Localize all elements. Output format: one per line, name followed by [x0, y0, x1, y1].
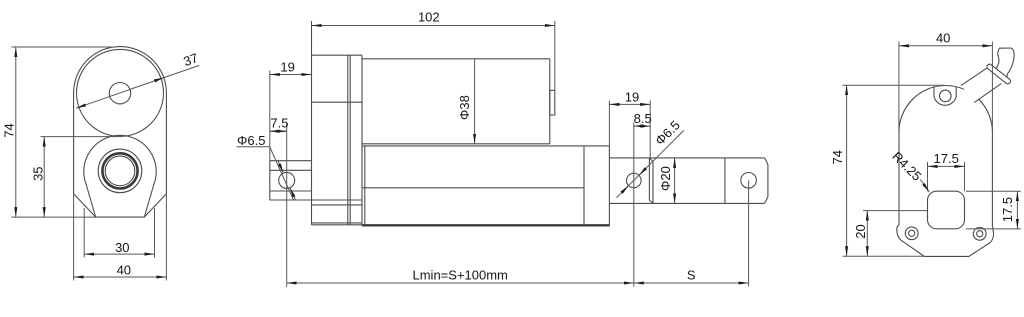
middle view rod top [609, 157, 764, 159]
middle view front clevis end chamfers [765, 158, 768, 165]
svg-text:102: 102 [418, 10, 440, 25]
svg-text:Lmin=S+100mm: Lmin=S+100mm [413, 267, 508, 282]
middle view tube top [362, 145, 609, 147]
svg-text:17.5: 17.5 [934, 151, 959, 166]
right view body sides [898, 132, 900, 225]
svg-text:7.5: 7.5 [270, 116, 288, 131]
svg-text:30: 30 [115, 240, 129, 255]
dim 19 front: dimension line [609, 103, 650, 105]
dim 102: extension line right [554, 21, 556, 90]
svg-text:74: 74 [830, 150, 845, 164]
dim S: extension line right [748, 180, 750, 286]
left view body outline [74, 47, 167, 218]
svg-text:19: 19 [625, 90, 639, 105]
dim 30 left: extension lines [83, 208, 85, 258]
dim 17.5 right: extension lines [966, 190, 1021, 192]
dim Lmin: dimension line [287, 282, 634, 284]
right view cable ring collar [986, 63, 1012, 85]
middle view gearbox lower lines [312, 204, 363, 206]
svg-text:Φ38: Φ38 [457, 95, 472, 120]
left view bushing thick ring [102, 153, 137, 188]
right view flange hole right [973, 227, 986, 240]
svg-text:S: S [687, 267, 696, 282]
dim 37 diagonal dimension line [76, 78, 164, 109]
svg-text:35: 35 [30, 166, 45, 180]
dim 102: dimension line [312, 25, 555, 27]
middle view tube left edge [364, 146, 366, 225]
dim S: dimension line [634, 282, 749, 284]
dim 74 right view: dimension line [846, 85, 848, 256]
middle view rod hole [627, 173, 642, 188]
dim 17.5 top: extension lines [927, 162, 929, 191]
dim 35 left: extension line [41, 136, 119, 138]
right view flange hole left [905, 227, 918, 240]
middle view motor brush cap [550, 90, 555, 115]
middle view rear clevis [270, 160, 312, 162]
left view bushing inner circle [105, 156, 135, 186]
dim 20 right view: extension line [863, 210, 928, 212]
middle view tube bottom thick [362, 224, 609, 226]
dim 74 right view: extension lines [843, 84, 945, 86]
dim 19 rear: extension line [269, 71, 271, 161]
middle view rod bottom [609, 202, 764, 204]
dim 19 front: extension lines [608, 101, 610, 146]
dim 17.5 right: dimension line [1016, 191, 1018, 229]
dim 40 left: extension lines [73, 195, 75, 281]
middle view gearbox inner flange pair [347, 55, 349, 225]
middle view front clevis separation [724, 158, 726, 204]
svg-text:74: 74 [1, 123, 16, 137]
right view cable stub sides [961, 67, 988, 85]
left view clevis boss arc [84, 135, 156, 217]
left view bushing outer circle [98, 149, 142, 193]
middle view rear clevis hole [279, 172, 295, 188]
svg-text:Φ20: Φ20 [658, 166, 673, 191]
middle view tube end face [608, 146, 610, 226]
dim 30 left: dimension line [84, 253, 154, 255]
middle view gearbox outline [312, 54, 363, 56]
dim 7.5 / Lmin: long center extension line [286, 123, 288, 287]
svg-text:20: 20 [853, 224, 868, 238]
right view dome arc [899, 85, 992, 132]
middle view tube mid line [362, 187, 584, 189]
dim phi20: dimension line [674, 158, 676, 204]
label phi6.5 front: leader [617, 130, 684, 197]
right view cable hook [994, 48, 1014, 79]
svg-text:17.5: 17.5 [1000, 197, 1015, 222]
dim 40 right view: extension lines [898, 42, 900, 133]
label phi6.5 rear: underline and leader [237, 146, 270, 148]
dim 40 right view: dimension line [899, 45, 993, 47]
svg-text:19: 19 [280, 60, 294, 75]
middle view motor outline [362, 58, 550, 60]
dim 74 left: dimension line [15, 47, 17, 217]
svg-text:Φ6.5: Φ6.5 [652, 117, 683, 148]
middle view gearbox inner horizontal [312, 101, 363, 103]
svg-text:40: 40 [936, 31, 950, 46]
right view rounded square [928, 191, 965, 229]
middle view motor face line [361, 55, 363, 225]
dim 17.5 top: dimension line [928, 165, 965, 167]
dim 7.5: dimension line [270, 130, 287, 132]
right view tab boss [934, 86, 956, 105]
middle view tube end cap line [583, 146, 585, 226]
svg-text:8.5: 8.5 [634, 111, 652, 126]
dim 40 left: dimension line [74, 276, 167, 278]
middle view front clevis hole [741, 173, 757, 189]
right view flange outline left [897, 225, 994, 257]
right view tab hole [940, 90, 952, 102]
left view hub circle [109, 83, 130, 104]
middle view rod sliver strip [648, 158, 650, 200]
svg-text:Φ6.5: Φ6.5 [237, 133, 265, 148]
dim 20 right view: dimension line [866, 211, 868, 257]
left view motor circle [77, 49, 164, 136]
svg-text:R4.25: R4.25 [889, 149, 924, 184]
label R4.25 leader [920, 180, 929, 193]
dim 74 left: extension lines [12, 46, 113, 48]
dim 19 rear: dimension line [270, 74, 312, 76]
dim 8.5: extension line [633, 123, 635, 287]
right view cable stub [961, 67, 1001, 102]
svg-text:40: 40 [117, 263, 131, 278]
dim 8.5: dimension line [634, 125, 642, 127]
dim phi38: dimension line [474, 59, 476, 144]
dim 35 left: dimension line [43, 137, 45, 218]
